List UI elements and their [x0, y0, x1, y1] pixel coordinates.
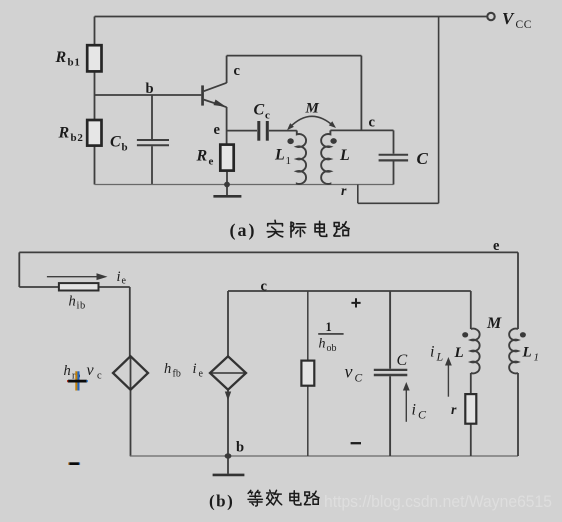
- svg-text:i: i: [193, 361, 197, 377]
- svg-text:C: C: [417, 149, 429, 168]
- svg-text:r: r: [451, 403, 457, 418]
- svg-text:V: V: [502, 9, 515, 28]
- svg-text:h: h: [164, 361, 171, 377]
- svg-text:c: c: [97, 371, 102, 382]
- svg-text:ib: ib: [77, 301, 86, 312]
- svg-text:e: e: [214, 122, 221, 138]
- svg-text:R: R: [196, 148, 208, 165]
- svg-text:https://blog.csdn.net/Wayne651: https://blog.csdn.net/Wayne6515: [324, 493, 552, 511]
- svg-text:i: i: [412, 402, 416, 419]
- svg-text:fb: fb: [173, 369, 181, 380]
- svg-text:1: 1: [534, 352, 540, 364]
- svg-text:1: 1: [286, 155, 292, 167]
- svg-text:b: b: [236, 440, 244, 456]
- svg-text:1: 1: [326, 320, 332, 334]
- svg-text:C: C: [110, 134, 121, 151]
- svg-text:e: e: [122, 276, 127, 287]
- svg-text:b: b: [146, 81, 154, 97]
- svg-text:(b): (b): [209, 492, 234, 511]
- svg-text:R: R: [55, 49, 67, 66]
- svg-text:b2: b2: [71, 132, 84, 144]
- svg-text:e: e: [199, 369, 204, 380]
- svg-text:C: C: [397, 352, 408, 369]
- svg-text:M: M: [486, 315, 502, 332]
- svg-text:CC: CC: [516, 19, 533, 31]
- svg-text:R: R: [58, 125, 70, 142]
- svg-text:L: L: [454, 345, 464, 361]
- svg-text:C: C: [355, 373, 363, 385]
- svg-text:h: h: [319, 337, 326, 352]
- svg-text:L: L: [522, 345, 532, 361]
- svg-text:C: C: [418, 408, 427, 422]
- svg-text:C: C: [254, 102, 265, 119]
- svg-text:ob: ob: [327, 343, 337, 354]
- svg-text:b: b: [122, 142, 128, 154]
- svg-text:L: L: [436, 350, 444, 364]
- svg-text:c: c: [261, 279, 268, 295]
- svg-text:M: M: [305, 101, 320, 117]
- svg-text:c: c: [234, 63, 241, 79]
- svg-text:v: v: [345, 362, 353, 382]
- svg-text:c: c: [265, 110, 270, 122]
- svg-text:v: v: [87, 362, 95, 379]
- svg-text:r: r: [341, 184, 347, 199]
- svg-text:i: i: [117, 269, 121, 285]
- svg-text:h: h: [69, 294, 76, 310]
- svg-text:e: e: [493, 238, 500, 254]
- svg-text:L: L: [274, 147, 285, 164]
- svg-text:b1: b1: [68, 57, 81, 69]
- svg-text:c: c: [369, 115, 376, 131]
- svg-text:e: e: [209, 156, 214, 168]
- svg-text:(a): (a): [230, 220, 257, 241]
- svg-text:i: i: [430, 344, 434, 361]
- svg-text:h: h: [64, 363, 71, 379]
- svg-text:L: L: [339, 147, 350, 164]
